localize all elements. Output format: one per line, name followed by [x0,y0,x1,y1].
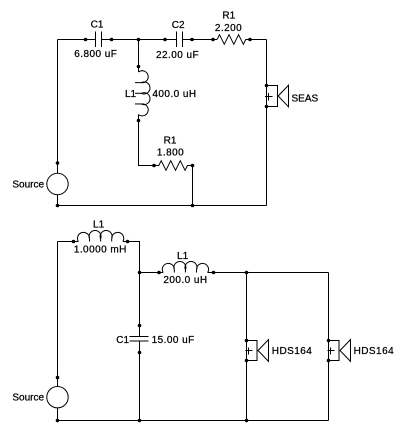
svg-text:R1: R1 [164,136,177,147]
capacitor C2 (22.00 uF) [177,32,183,48]
svg-text:Source: Source [12,393,44,404]
node dot source bottom terminal [56,204,60,208]
wire right rail upper [266,40,268,86]
svg-text:2.200: 2.200 [215,23,242,34]
speaker SEAS plus sign [265,93,273,101]
wire after R1 1.800 [187,165,192,167]
node dot after R1 [248,38,252,42]
wire left rail upper [57,40,59,174]
speaker HDS164 #2 box [329,341,340,361]
node dot above source [56,161,60,165]
wire middle branch lower [139,115,159,166]
speaker HDS164 #2 plus sign [328,348,335,355]
node dot below C1 15uF [138,351,142,355]
svg-text:C2: C2 [172,20,185,31]
wire speaker1 branch lower [246,361,248,421]
wire source 2 bottom to rail [57,408,59,421]
capacitor C1 (15.00 uF) [130,337,149,342]
node dot above C1 15uF [138,324,142,328]
wire bottom rail of bottom circuit [58,420,329,422]
node dot speaker1 bottom terminal [245,359,249,363]
node dot after C1 [110,38,114,42]
node dot speaker1 top terminal [245,339,249,343]
node dot after L1 1mH [126,240,130,244]
source V2 circle [47,387,68,408]
svg-text:HDS164: HDS164 [272,346,313,357]
svg-text:400.0 uH: 400.0 uH [152,89,196,100]
svg-text:200.0 uH: 200.0 uH [163,275,207,286]
speaker HDS164 #1 plus sign [246,348,253,355]
wire top rail between C2 and R1 [183,39,218,41]
speaker HDS164 #1 box [247,341,258,361]
inductor L1 (200.0 uH) horizontal coil [162,262,208,273]
wire top rail left segment [58,39,96,41]
wire mid rail left [140,272,164,274]
node dot after L1 200uH [212,271,216,275]
wire speaker1 branch upper [246,273,248,341]
node dot after R1 1.800 [191,164,195,168]
svg-text:1.800: 1.800 [157,148,184,159]
wire top rail between C1 and C2 [102,39,177,41]
node dot before C2 [163,38,167,42]
node dot before R1 1.800 [152,164,156,168]
junction dot speaker1 branch [245,271,249,275]
node dot after C2 [190,38,194,42]
wire right rail lower [266,107,268,206]
svg-text:22.00 uF: 22.00 uF [156,50,199,61]
svg-text:C1: C1 [116,335,129,346]
node dot speaker2 bottom terminal [327,359,331,363]
node dot speaker bottom terminal [265,105,269,109]
node dot before C1 [84,38,88,42]
svg-text:6.800 uF: 6.800 uF [74,49,117,60]
wire middle branch upper [138,40,140,73]
node dot speaker top terminal [265,84,269,88]
inductor L1 (400.0 uH) vertical coil [135,71,150,116]
svg-text:L1: L1 [125,89,137,100]
node dot speaker2 top terminal [327,339,331,343]
inductor L1 (1.0000 mH) horizontal coil [78,230,124,241]
speaker SEAS cone triangle [278,85,288,107]
svg-text:15.00 uF: 15.00 uF [152,335,195,346]
wire top rail right segment [246,39,267,41]
speaker SEAS box [267,86,278,107]
node dot source 2 bottom terminal [56,419,60,423]
node dot below L1 [137,119,141,123]
speaker HDS164 #1 cone triangle [258,340,269,362]
source V1 circle [47,173,68,194]
svg-text:HDS164: HDS164 [354,346,395,357]
capacitor C1 (6.800 uF) [96,32,102,48]
junction dot mid rail [138,271,142,275]
svg-text:C1: C1 [91,20,104,31]
resistor R1 (2.200) zigzag [217,35,246,45]
wire source bottom to rail [57,195,59,206]
wire speaker2 branch lower [328,361,330,421]
resistor R1 (1.800) zigzag [159,161,188,171]
junction dot node at middle branch [137,38,141,42]
speaker HDS164 #2 cone triangle [340,340,351,362]
wire top rail to corner and down [123,242,140,337]
junction dot R branch on bottom rail [191,204,195,208]
node dot above L1 [137,65,141,69]
node dot before R1 [211,38,215,42]
junction dot speaker1 branch on bottom rail [245,419,249,423]
svg-text:L1: L1 [93,220,105,231]
svg-text:R1: R1 [222,11,235,22]
wire top rail left of bottom circuit [58,241,79,243]
svg-text:1.0000 mH: 1.0000 mH [74,244,127,255]
svg-text:SEAS: SEAS [292,93,319,104]
node dot before L1 200uH [157,271,161,275]
wire C branch lower [139,341,141,421]
svg-text:Source: Source [12,180,44,191]
wire R branch down to bottom rail [192,166,194,206]
node dot above source 2 [56,376,60,380]
svg-text:L1: L1 [177,251,189,262]
junction dot C branch on bottom rail [138,419,142,423]
node dot before L1 1mH [72,240,76,244]
wire bottom rail of top circuit [58,205,267,207]
wire left rail bottom circuit [57,242,59,387]
wire speaker2 branch upper [328,273,330,341]
wire mid rail right [208,272,329,274]
